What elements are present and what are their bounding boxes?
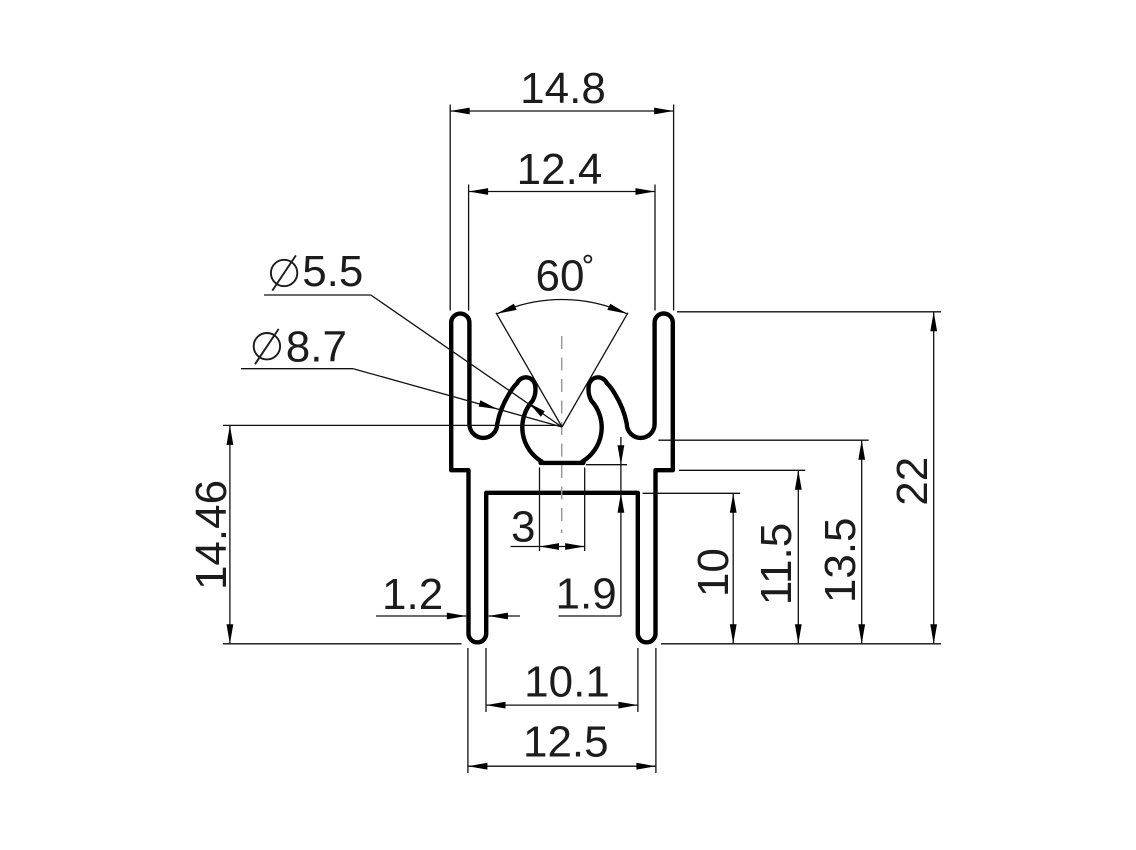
dim 11.5 (right) [797, 470, 799, 644]
centerline (dashed) [561, 336, 563, 533]
dim 14.46 (left) [223, 425, 562, 643]
extension line at cavity top (for dim 10) [643, 492, 741, 494]
dim 13.5 (right) [861, 440, 863, 644]
svg-text:60: 60 [536, 252, 585, 301]
extension line at shoulder step (for dim 11.5) [679, 469, 805, 471]
svg-text:10.1: 10.1 [524, 657, 610, 706]
dia 5.5 label [271, 260, 297, 286]
extension line at slot bottom (for dim 13.5) [658, 439, 868, 441]
dim 3 [511, 468, 585, 552]
dim 12.4 [469, 185, 655, 311]
svg-text:22: 22 [888, 457, 937, 506]
svg-text:1.2: 1.2 [382, 570, 443, 619]
svg-text:5.5: 5.5 [302, 247, 363, 296]
svg-text:12.4: 12.4 [517, 145, 603, 194]
dia 8.7 label [254, 333, 280, 359]
dim 12.5 (bottom) [468, 648, 656, 773]
dim 1.9 [558, 437, 627, 616]
profile outline of extrusion [451, 314, 673, 643]
extension line at ear top (for dim 22) [677, 311, 941, 313]
extension line at leg bottom (right, shared) [661, 643, 941, 645]
svg-text:11.5: 11.5 [752, 523, 801, 605]
svg-text:8.7: 8.7 [286, 323, 347, 372]
svg-text:14.46: 14.46 [187, 480, 236, 590]
svg-text:3: 3 [511, 503, 535, 552]
dim 22 (right) [933, 312, 935, 644]
svg-text:10: 10 [689, 548, 738, 597]
dim 14.8 [450, 105, 673, 311]
dim 10 (right) [732, 493, 734, 644]
svg-text:14.8: 14.8 [520, 64, 606, 113]
svg-text:13.5: 13.5 [816, 517, 865, 603]
svg-text:1.9: 1.9 [556, 570, 617, 619]
svg-text:12.5: 12.5 [523, 718, 609, 767]
dim 10.1 (bottom) [486, 648, 638, 712]
